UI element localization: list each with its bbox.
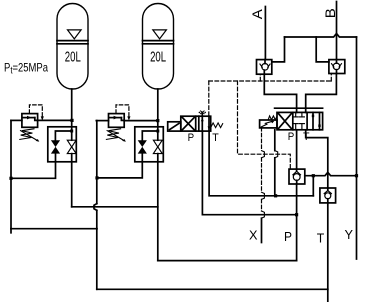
wire VB2 right branch down to P supply bbox=[157, 131, 159, 140]
wire main valve T port down to check 2 bbox=[306, 130, 328, 188]
relief valve RV1 pilot arrowhead bbox=[41, 116, 44, 120]
main valve MV centre cell blocked ports bbox=[293, 112, 304, 129]
wire port B down to check R bbox=[336, 2, 338, 60]
VB1 internal junction dot bbox=[70, 130, 73, 133]
wire main valve P port down to check 1 bbox=[296, 130, 298, 169]
check valve CK1 box bbox=[289, 169, 305, 184]
main valve MV top line bbox=[275, 107, 323, 109]
CKB ball bbox=[333, 63, 340, 70]
wire CK1 right port to Y bus with hop over T line bbox=[305, 172, 356, 175]
main valve MV spring above pilot box bbox=[268, 116, 277, 120]
relief valve RV1 spring bbox=[20, 129, 34, 140]
wire accumulator AC1 stem bbox=[71, 89, 73, 131]
svg-text:20L: 20L bbox=[65, 49, 81, 65]
svg-text:20L: 20L bbox=[150, 49, 166, 65]
wire CKB bottom to valve B port bbox=[306, 74, 337, 113]
VB1 internal wire bbox=[55, 131, 71, 140]
X pilot dashed line from main valve solenoid bbox=[261, 128, 263, 211]
relief valve RV1 adjust arrow bbox=[21, 131, 40, 142]
junction dot far-left bus / VB1 branch bbox=[9, 177, 12, 180]
main valve MV left cell X bbox=[278, 114, 291, 129]
relief valve RV1 pilot dashed line bbox=[29, 105, 42, 118]
pilot dashed branch V1 to box1 bbox=[238, 81, 291, 169]
CKA ball bbox=[262, 64, 269, 71]
svg-text:Y: Y bbox=[345, 228, 354, 242]
VB2 internal junction dot bbox=[156, 130, 159, 133]
wire PV T-port down and right bbox=[209, 131, 313, 196]
wire Y bus vertical bbox=[356, 37, 358, 259]
wire accumulator rail corner to the right bbox=[158, 260, 297, 262]
CKB port stubs bbox=[336, 60, 338, 64]
pilot valve PV left cell X bbox=[182, 117, 194, 129]
wire RV2 bus vertical upper bbox=[96, 121, 98, 204]
pilot check valve CKA box bbox=[257, 60, 272, 75]
pilot valve PV right cell flow paths with arrows bbox=[201, 116, 203, 131]
wire RV2 bus vertical lower bbox=[96, 210, 98, 289]
VB1 shutoff valve (filled hourglass) bbox=[51, 140, 60, 153]
wire accumulator AC2 stem bbox=[157, 89, 159, 131]
relief valve RV2 adjust arrow bbox=[107, 131, 126, 142]
svg-text:P: P bbox=[288, 131, 295, 143]
CK1 ball bbox=[293, 174, 300, 181]
VB1 throttle valve (open hourglass) bbox=[67, 140, 76, 153]
svg-text:T: T bbox=[212, 132, 219, 144]
pilot valve PV top vent mark bbox=[201, 112, 203, 116]
pilot enclosure dashed top edge bbox=[209, 74, 331, 170]
CKA port stubs bbox=[264, 60, 266, 64]
VB2 internal wire bbox=[142, 131, 158, 140]
relief valve RV2 body bbox=[109, 114, 125, 128]
CK2 seat chevron bbox=[324, 191, 331, 194]
pilot supply line from main valve to T-drain bbox=[274, 130, 276, 151]
main valve MV pilot box left bbox=[260, 120, 277, 128]
pilot dashed drop to PV top bbox=[208, 81, 210, 116]
shutoff/throttle block VB2 bbox=[135, 127, 164, 162]
wire VB1 left branch down-left bbox=[11, 154, 56, 179]
wire CKA right port to H1 bbox=[272, 37, 285, 62]
pilot check valve CKB box bbox=[329, 60, 345, 74]
pilot valve PV spring right bbox=[211, 123, 223, 128]
wire CKA bottom to valve A port bbox=[264, 74, 296, 112]
pilot valve PV solenoid diagonal bbox=[170, 123, 179, 129]
pilot valve PV body bbox=[181, 116, 211, 131]
wire CKB left port to H1 bbox=[316, 37, 329, 62]
wire VB2 left branch down-left bbox=[97, 154, 142, 178]
wire T-drain up to box1 side line bbox=[312, 176, 314, 196]
relief valve RV2 spring bbox=[106, 129, 120, 140]
junction at RV2 outlet / AC2 stem bbox=[156, 119, 159, 122]
accumulator AC1 20L bbox=[57, 4, 88, 90]
wire RV2 bus hop over line C bbox=[94, 204, 97, 211]
CK1 port stubs bbox=[296, 169, 298, 171]
wire line C horizontal (accumulator P rail) bbox=[72, 206, 158, 208]
main valve MV right cell through paths bbox=[312, 112, 314, 129]
VB2 shutoff valve (filled hourglass) bbox=[138, 140, 147, 153]
wire RV2 outlet to AC2 stem bbox=[124, 120, 158, 122]
accumulator AC2 20L bbox=[143, 4, 174, 90]
X port solid stub bbox=[261, 218, 263, 242]
CK2 ball bbox=[325, 193, 331, 199]
junction dot RV2 bus / VB2 branch bbox=[95, 176, 98, 179]
CKB seat ticks bbox=[332, 64, 334, 67]
relief valve RV1 body bbox=[22, 114, 38, 128]
shutoff/throttle block VB1 bbox=[48, 127, 77, 162]
svg-text:P: P bbox=[284, 230, 292, 244]
check valve CK2 box bbox=[320, 188, 336, 203]
main valve MV body bbox=[277, 112, 323, 129]
wire far-left bus vertical bbox=[10, 120, 12, 228]
wire far-left corner overshoot tick bbox=[10, 229, 12, 233]
wire bottom-left horizontal D bbox=[11, 228, 97, 230]
VB2 throttle valve (open hourglass) bbox=[153, 140, 162, 153]
CKA seat ticks bbox=[260, 64, 262, 67]
junction dot H_P / P vertical bbox=[295, 213, 298, 216]
wire VB1 right branch down (line C start) bbox=[71, 131, 73, 140]
wire RV1 inlet bbox=[11, 119, 22, 121]
pilot valve PV solenoid box bbox=[168, 122, 181, 131]
X pilot hop over T-drain horizontal bbox=[262, 192, 265, 199]
wire CK2 bottom T bus to image bottom bbox=[327, 203, 329, 302]
X pilot hop over dashed pilot horizontal bbox=[262, 151, 265, 158]
junction dot T-drain corner top bbox=[312, 174, 315, 177]
svg-text:T: T bbox=[317, 232, 325, 246]
pilot dashed drop to check L bottom bbox=[259, 74, 261, 81]
CK2 port stubs bbox=[327, 188, 329, 191]
wire PV P-port down and right to P vertical bbox=[202, 131, 296, 215]
wire bottom horizontal to T line bbox=[97, 288, 328, 290]
wire RV2 inlet bbox=[96, 120, 108, 122]
junction dot CK1 line / Y bus bbox=[355, 174, 358, 177]
junction at RV1 outlet / AC1 stem bbox=[70, 119, 73, 122]
junction dot pilot supply / T-drain line bbox=[274, 194, 277, 197]
X pilot hop over P horizontal bbox=[262, 211, 265, 218]
svg-text:X: X bbox=[249, 229, 258, 243]
wire CK1 bottom down (P rail) bbox=[296, 184, 298, 261]
relief valve RV2 pilot arrowhead bbox=[127, 116, 130, 120]
pilot dashed rise to check R bottom bbox=[330, 74, 332, 82]
relief valve RV2 pilot dashed line bbox=[116, 105, 129, 118]
CK1 seat chevron bbox=[293, 171, 301, 175]
wire H1 horizontal with hop over B bbox=[285, 34, 357, 38]
wire port A down to check L bbox=[264, 7, 266, 60]
svg-text:A: A bbox=[250, 9, 265, 19]
wire RV1 outlet to AC1 stem bbox=[38, 119, 72, 121]
svg-text:P: P bbox=[188, 132, 195, 144]
